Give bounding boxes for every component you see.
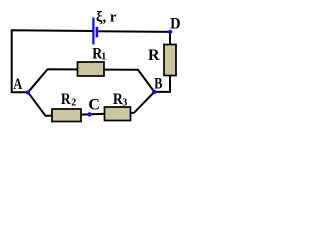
svg-text:2: 2 [71, 97, 76, 108]
svg-text:R: R [148, 47, 160, 64]
svg-text:C: C [88, 97, 100, 114]
svg-text:A: A [13, 76, 22, 94]
svg-text:B: B [154, 75, 163, 93]
svg-text:ξ, r: ξ, r [96, 9, 117, 25]
svg-text:R: R [61, 91, 71, 108]
svg-text:D: D [170, 15, 180, 33]
svg-text:3: 3 [122, 98, 127, 109]
svg-text:1: 1 [101, 52, 106, 63]
